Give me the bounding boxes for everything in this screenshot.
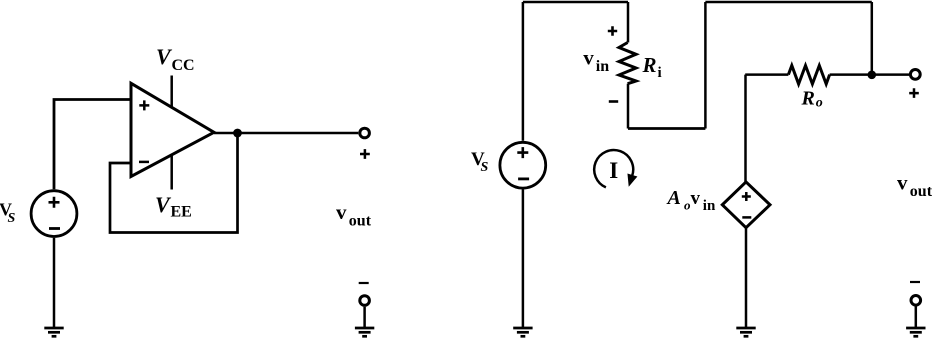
label vin [583,46,609,75]
voltage source VS (left) [31,191,77,237]
label vout (left) [336,200,372,229]
svg-text:CC: CC [172,57,195,74]
svg-text:in: in [596,58,609,75]
svg-text:v: v [897,170,908,194]
op-amp + input mark [139,100,149,110]
svg-text:i: i [658,65,662,81]
svg-text:S: S [481,160,489,175]
ground (left terminal) [355,328,374,336]
label Ri [642,53,662,81]
ground (dependent source) [736,328,755,336]
label vout (right) [897,170,932,200]
wire node down to dependent source [744,75,747,182]
svg-text:I: I [609,158,618,183]
wire terminal to ground (left) [363,307,366,328]
label Ro [801,87,823,110]
wire op-amp output to terminal [214,132,358,135]
svg-text:in: in [703,198,716,214]
svg-text:v: v [336,200,347,224]
op-amp U1 [131,83,214,176]
wire bottom middle horizontal [628,127,705,130]
terminal vout+ (right) [910,70,920,80]
plus mark at vout+ (right) [909,88,919,98]
wire down to Ri top [627,2,630,43]
terminal vout- (right) [911,296,921,306]
resistor Ro [788,66,829,85]
wire VS top up [522,2,525,141]
minus mark vin- [609,100,618,103]
wire top left horizontal [523,1,628,4]
plus mark at vout+ (left) [360,149,370,159]
ground (right terminal) [906,328,925,336]
svg-text:v: v [691,188,701,209]
terminal vout- (left) [360,296,370,306]
label VCC [156,44,195,74]
ground (right VS) [513,328,532,336]
wire VEE supply [170,155,173,190]
wire VS bottom to ground [53,238,56,328]
junction dot output node [233,129,242,138]
label VS (left source) [0,200,16,227]
terminal vout+ (left) [360,128,370,138]
svg-text:out: out [910,183,932,200]
svg-text:v: v [583,46,594,70]
svg-text:A: A [666,187,681,209]
wire down to output node [871,2,874,75]
svg-text:R: R [642,53,657,77]
minus mark at vout- (right) [910,281,920,283]
wire Ri bottom down [627,84,630,129]
label VEE [155,192,192,221]
wire Ro right to terminal [830,73,909,76]
wire VS (right) bottom to ground [522,190,525,329]
svg-text:R: R [801,87,815,109]
junction dot output node (right) [868,71,877,80]
label VS (right source) [471,149,489,175]
ground (left VS) [44,328,63,336]
wire terminal to ground (right) [915,307,918,329]
minus mark at vout- (left) [359,282,369,284]
wire VCC supply [170,76,173,108]
svg-text:V: V [155,192,172,217]
resistor Ri [619,43,636,84]
wire Ro left segment [745,73,788,76]
label Ao vin [666,187,716,214]
wire feedback loop to - input [110,133,238,233]
svg-text:EE: EE [171,204,192,221]
voltage source VS (right) [500,142,546,188]
dependent source Ao vin (diamond) [722,182,770,228]
svg-text:V: V [156,44,173,69]
wire top right horizontal [705,1,871,4]
op-amp - input mark [139,161,149,164]
svg-text:out: out [349,212,372,229]
plus mark vin+ [608,26,617,35]
wire dependent source to ground [745,228,748,328]
current loop I [594,150,636,187]
svg-text:o: o [816,96,823,111]
wire VS top to op-amp + input [54,100,130,190]
wire middle vertical up [704,2,707,129]
svg-text:S: S [8,211,16,226]
